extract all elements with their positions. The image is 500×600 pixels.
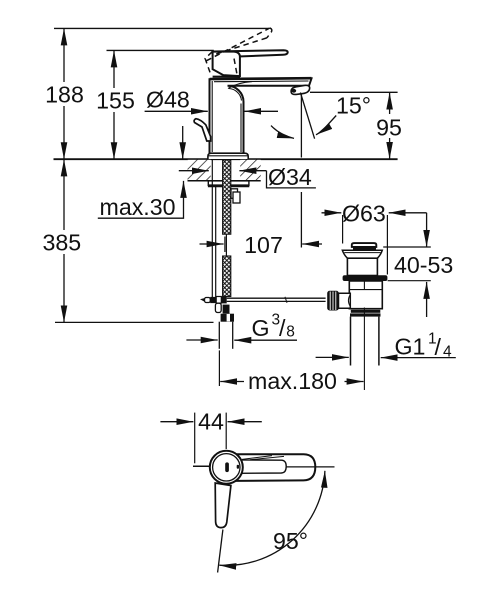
shank side fitting <box>231 189 240 203</box>
faucet body <box>210 78 312 153</box>
label G3/8 <box>186 312 297 342</box>
svg-text:44: 44 <box>198 409 224 435</box>
svg-text:Ø34: Ø34 <box>268 164 312 190</box>
svg-text:G: G <box>252 315 270 341</box>
svg-text:/: / <box>279 315 286 341</box>
water stream slanted <box>300 93 314 139</box>
svg-text:Ø48: Ø48 <box>146 87 190 113</box>
arc 95deg <box>219 471 325 566</box>
label Ø34 <box>179 164 316 190</box>
dim 95 <box>310 92 404 159</box>
label 15deg + leader <box>316 93 371 135</box>
hose tail tube <box>219 322 232 349</box>
waste tailpipe <box>351 317 379 366</box>
waste bottom joint <box>350 310 381 317</box>
waste upper body <box>347 258 377 275</box>
svg-text:95°: 95° <box>273 528 308 554</box>
svg-text:max.180: max.180 <box>248 368 337 394</box>
bottom view: dim 44 <box>160 409 261 464</box>
waste flange bell <box>342 250 382 258</box>
extension line 155 <box>107 49 214 51</box>
dim 188 <box>44 28 85 159</box>
counter line <box>54 158 398 160</box>
popup waste: dim Ø63 <box>322 201 427 275</box>
deck bottom line <box>188 180 261 182</box>
arc 15 deg <box>271 126 294 139</box>
threaded shank upper <box>223 160 231 234</box>
water stream vertical <box>300 95 302 158</box>
label Ø48 <box>145 87 208 113</box>
dim 107 <box>200 232 323 258</box>
arrow right of body (Ø48) <box>244 110 278 112</box>
svg-text:max.30: max.30 <box>100 194 176 220</box>
dashed lever up position <box>205 28 272 76</box>
svg-text:155: 155 <box>96 88 135 114</box>
lever arm top view <box>237 454 316 481</box>
rod clamp block <box>215 303 229 313</box>
horizontal pull rod lever <box>200 296 326 303</box>
svg-text:40-53: 40-53 <box>394 252 453 278</box>
waste side port <box>339 293 351 308</box>
G3/8 nut <box>221 314 234 322</box>
handle housing <box>213 52 240 77</box>
horizontal ref line <box>287 466 335 468</box>
washer under deck <box>208 181 249 186</box>
supply hose <box>212 160 215 303</box>
dim max.180 <box>219 350 363 394</box>
faucet base flange <box>208 153 248 159</box>
svg-text:188: 188 <box>45 82 84 108</box>
knurled knob <box>327 291 339 311</box>
waste seal (black) <box>343 275 388 281</box>
deck hatch left <box>188 160 211 181</box>
svg-text:G1: G1 <box>395 334 426 360</box>
waste centerline <box>363 308 365 391</box>
waste lower body <box>349 281 382 309</box>
dim G1 1/4 <box>316 331 456 361</box>
handle cap circle <box>210 451 243 484</box>
svg-text:Ø63: Ø63 <box>342 201 386 227</box>
lever arm inner surface <box>238 460 286 473</box>
dim 155 <box>95 50 136 159</box>
waste cap <box>352 243 377 250</box>
svg-text:8: 8 <box>286 324 295 341</box>
dim max.30 <box>98 126 184 220</box>
svg-text:107: 107 <box>244 232 283 258</box>
svg-text:95: 95 <box>376 115 402 141</box>
aerator <box>291 85 310 94</box>
deck hatch right <box>240 160 261 181</box>
svg-text:4: 4 <box>443 344 452 361</box>
dim 385 <box>41 159 85 322</box>
cap marks <box>225 462 229 472</box>
svg-text:/: / <box>435 334 442 360</box>
angle line <box>218 530 223 573</box>
svg-text:15°: 15° <box>336 93 371 119</box>
threaded shank lower <box>223 256 231 297</box>
pop-up rod segment <box>225 234 227 256</box>
ext line 385 bottom <box>55 321 214 323</box>
dim 40-53 <box>383 213 453 317</box>
lever handle (solid) <box>213 50 288 56</box>
lower arm (rotated position) <box>215 483 231 528</box>
svg-text:385: 385 <box>42 230 81 256</box>
pull rod knob <box>194 119 211 141</box>
lever arm detail lines <box>242 456 284 460</box>
tick left of circle <box>193 465 210 467</box>
extension line top (188) <box>54 27 269 29</box>
